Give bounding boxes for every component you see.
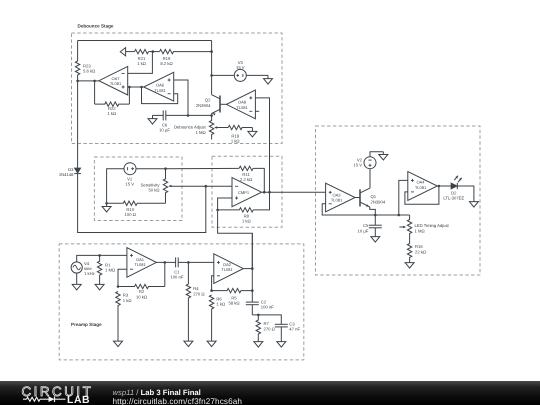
ground at R3: [117, 340, 119, 342]
wire OA6 non-inverting input down to C6 node: [174, 80, 188, 116]
op-amp OA2: [214, 254, 244, 284]
wire R2 right up to OA1 output: [164, 262, 166, 286]
ground at LED: [473, 201, 475, 203]
wire V2 top to ground: [370, 152, 383, 157]
junction OA4 output: [438, 185, 441, 188]
svg-text:10 µF: 10 µF: [358, 228, 369, 233]
ground at R16: [409, 262, 411, 264]
ground at V4: [76, 283, 78, 285]
svg-text:1 MΩ: 1 MΩ: [196, 130, 206, 135]
svg-text:58 kΩ: 58 kΩ: [228, 301, 239, 306]
junction emitter rail / OA4 non-inverting feed: [398, 214, 401, 217]
capacitor C5: [358, 215, 382, 237]
ground at V2: [382, 152, 384, 155]
op-amp OA4: [408, 172, 438, 201]
junction V1 negative / R10 / ground: [105, 202, 108, 205]
wire sensitivity wiper to comparator inverting input: [172, 185, 233, 187]
wire OA4 output to LED: [437, 185, 451, 187]
wire OA1 inverting input to feedback node: [118, 269, 127, 286]
svg-text:TL081: TL081: [134, 262, 146, 267]
svg-text:1 kΩ: 1 kΩ: [123, 298, 132, 303]
wire OA6 output to OA7 non-inverting input: [128, 86, 144, 88]
CircuitLab logo squiggle (wire resistor diode): [23, 396, 66, 402]
junction C1/R4/OA2+ node: [187, 261, 190, 264]
wire OA6 feedback loop output to inverting input: [142, 87, 178, 104]
capacitor C1: [170, 257, 188, 279]
debounce stage boundary box: [72, 33, 283, 144]
svg-text:5.6 kΩ: 5.6 kΩ: [83, 69, 95, 74]
ground at V1/R10: [106, 203, 108, 206]
svg-text:100 nF: 100 nF: [261, 305, 274, 310]
junction OA2 output: [251, 267, 254, 270]
sensitivity stage boundary box: [94, 157, 182, 221]
svg-text:1 kΩ: 1 kΩ: [137, 61, 146, 66]
diode D3 1N4148: [59, 81, 81, 177]
resistor R4: [186, 262, 204, 341]
junction R22 left at OA7 output: [93, 80, 96, 83]
capacitor C3: [275, 322, 301, 342]
wire R22 left leg from OA7 output: [94, 81, 96, 104]
node A junction (R23 / OA7 output / D3): [76, 80, 79, 83]
junction R5/R6/OA2- node: [210, 289, 213, 292]
junction R19 to supply rail: [210, 50, 213, 53]
wire port to R21: [126, 51, 135, 53]
svg-text:1N4148: 1N4148: [59, 172, 74, 177]
resistor R16: [407, 244, 426, 263]
op-amp OA3: [326, 183, 356, 212]
svg-text:LAB: LAB: [67, 395, 90, 405]
svg-text:1 kΩ: 1 kΩ: [242, 219, 251, 224]
ground at R7: [257, 341, 259, 343]
wire V4 bottom to ground: [76, 273, 78, 284]
op-amp OA8: [226, 90, 255, 119]
wire V1 negative lead to ground rail: [107, 169, 124, 204]
ground at C3: [280, 341, 282, 343]
ground at R6: [211, 340, 213, 342]
wire comparator input node down to preamp output: [218, 210, 253, 269]
junction R5 right / C2 top: [251, 289, 254, 292]
wire LED cathode to ground: [457, 186, 474, 202]
LED D2 LTL-307EE: [443, 175, 464, 200]
voltage source V1 15 V: [124, 163, 136, 187]
op-amp OA6: [144, 72, 174, 101]
resistor R23: [75, 41, 95, 81]
wire OA8 inverting input stub: [255, 110, 259, 112]
op-amp OA1: [127, 248, 156, 278]
junction emitter rail / C5: [374, 214, 377, 217]
svg-text:wsp11 / Lab 3 Final Final: wsp11 / Lab 3 Final Final: [113, 388, 201, 397]
wire OA2 inverting input to feedback node: [212, 276, 214, 291]
resistor R18: [228, 125, 252, 143]
wire OA4 feedback loop output to inverting input: [405, 186, 439, 204]
wire OA7 inverting input to R21/R19 junction: [128, 52, 153, 74]
ground at V3: [267, 75, 269, 78]
svg-text:10 kΩ: 10 kΩ: [136, 294, 147, 299]
svg-text:1 kΩ: 1 kΩ: [107, 111, 116, 116]
resistor R7: [256, 315, 275, 342]
svg-text:100 nF: 100 nF: [170, 275, 183, 280]
wire D3 down and across to sensitivity wiper node: [78, 174, 206, 233]
svg-text:TL081: TL081: [331, 198, 343, 203]
wire OA1 output to C1: [156, 261, 175, 263]
ground at R4: [187, 340, 189, 342]
junction R2/R3/OA1- node: [117, 285, 120, 288]
svg-text:Preamp Stage: Preamp Stage: [71, 322, 102, 327]
resistor R19: [160, 49, 212, 66]
voltage source V2 15 V: [353, 157, 376, 169]
wire OA3 output to Q1 base: [355, 197, 360, 199]
resistor R3: [116, 292, 132, 342]
wire V1 positive lead to pot top: [136, 168, 166, 170]
svg-text:15 V: 15 V: [236, 65, 245, 70]
ground at R18: [251, 130, 253, 132]
svg-text:47 nF: 47 nF: [289, 327, 300, 332]
svg-text:TL081: TL081: [110, 81, 122, 86]
resistor R10: [107, 201, 166, 217]
LED driver stage boundary box: [316, 126, 481, 275]
wire top supply rail: [78, 40, 212, 42]
wire V4 top to OA1 non-inverting input: [77, 255, 127, 262]
junction wiper / D3 branch: [205, 185, 208, 188]
wire node A to OA7 output: [78, 80, 99, 82]
wire C1 node to OA2 non-inverting input: [188, 261, 213, 263]
svg-text:1 MΩ: 1 MΩ: [105, 268, 115, 273]
junction R1 top: [98, 254, 101, 257]
wire V3 right lead to ground: [246, 74, 268, 76]
junction R2 at OA1 output: [164, 261, 167, 264]
wire OA3 inverting input feedback to emitter rail: [322, 204, 409, 215]
wire C2 bottom across to C3: [252, 315, 281, 324]
wire R18 to ground: [251, 128, 253, 132]
junction R7 top: [257, 314, 260, 317]
svg-text:1 kΩ: 1 kΩ: [216, 302, 225, 307]
resistor R2: [118, 284, 165, 299]
wire OA4 non-inverting input from emitter rail: [399, 180, 408, 215]
svg-text:270 Ω: 270 Ω: [264, 326, 275, 331]
wire R8 right up to output node: [253, 192, 269, 210]
resistor R8: [218, 208, 254, 224]
svg-text:1 kΩ: 1 kΩ: [231, 139, 240, 144]
preamp stage boundary box: [59, 244, 304, 360]
resistor R6: [209, 295, 225, 341]
capacitor C6: [153, 110, 189, 132]
resistor R22: [95, 102, 130, 116]
svg-text:TL081: TL081: [415, 185, 427, 190]
svg-text:LTL-307EE: LTL-307EE: [443, 195, 464, 200]
wire CMP1 output to OA3 input: [262, 191, 326, 193]
svg-text:50 kΩ: 50 kΩ: [148, 188, 159, 193]
input port arrow: [120, 48, 125, 56]
junction R21/R19/OA7 inverting input: [152, 50, 155, 53]
wire OA8 non-inverting input down to comparator output node: [255, 98, 269, 192]
junction R8 left / preamp feed: [216, 209, 219, 212]
op-amp OA7: [99, 66, 128, 95]
junction R22/OA7+/OA6 output: [128, 86, 131, 89]
capacitor C2: [246, 299, 274, 315]
svg-text:1 kHz: 1 kHz: [84, 271, 95, 276]
junction V3 to supply rail: [210, 74, 213, 77]
svg-text:TL081: TL081: [236, 105, 248, 110]
svg-text:8.2 kΩ: 8.2 kΩ: [160, 61, 172, 66]
svg-text:TL081: TL081: [154, 88, 166, 93]
svg-text:100 Ω: 100 Ω: [125, 212, 136, 217]
voltage source V3 15 V: [234, 60, 246, 82]
potentiometer Debounce Adjust 1 MOhm: [174, 115, 228, 139]
junction OA8 sense / R8 feedback at output: [268, 191, 271, 194]
wire R22 right leg up to OA7 non-inverting input: [128, 87, 130, 104]
wire pot top node to R11 (supply to comparator pull-up): [166, 167, 240, 169]
svg-text:15 V: 15 V: [353, 162, 362, 167]
svg-text:22 kΩ: 22 kΩ: [415, 249, 426, 254]
voltage source V4 sine 1 kHz: [71, 261, 95, 276]
junction R11 at output: [263, 191, 266, 194]
svg-text:15 V: 15 V: [125, 182, 134, 187]
svg-text:Debounce Stage: Debounce Stage: [78, 23, 114, 28]
svg-text:2N3904: 2N3904: [371, 199, 386, 204]
resistor R21: [135, 49, 149, 66]
wire OA2 output vertical net: [243, 268, 252, 270]
resistor R11 pull-up: [239, 166, 253, 182]
wire V2 bottom to Q1 collector: [369, 169, 371, 188]
ground at C5: [374, 236, 376, 238]
wire CMP1 non-inverting input to R8 node: [218, 198, 232, 210]
svg-text:1 MΩ: 1 MΩ: [415, 228, 425, 233]
resistor R1: [97, 255, 115, 284]
junction OA6 feedback at output wire: [140, 86, 143, 89]
junction V1/pot/R11 node: [164, 167, 167, 170]
svg-text:TL081: TL081: [221, 267, 233, 272]
svg-text:http://circuitlab.com/cf3fn27h: http://circuitlab.com/cf3fn27hcs6ah: [113, 397, 243, 405]
svg-text:270 Ω: 270 Ω: [193, 291, 204, 296]
comparator CMP1: [232, 178, 262, 207]
wire C6 node to Q2 emitter node: [188, 114, 212, 116]
ground at R1: [99, 283, 101, 285]
wire V3 left lead: [212, 74, 235, 76]
svg-text:2N3904: 2N3904: [196, 103, 211, 108]
resistor R5: [212, 288, 253, 305]
wire supply rail drop to V3 and Q2 collector: [211, 41, 213, 95]
potentiometer Sensitivity 50 kOhm: [141, 169, 172, 204]
svg-text:10 µF: 10 µF: [159, 128, 170, 133]
wire R11 to comparator output: [253, 168, 264, 192]
transistor Q1 2N3904: [360, 188, 386, 215]
junction C6/OA6+ node: [187, 114, 190, 117]
transistor Q2 2N3904: [196, 95, 227, 116]
svg-text:2.2 kΩ: 2.2 kΩ: [240, 177, 252, 182]
svg-text:CMP1: CMP1: [238, 190, 250, 195]
comparator stage boundary box: [212, 156, 282, 227]
ground at C6: [152, 115, 154, 118]
potentiometer LED Timing Adjust 1 MOhm: [399, 215, 449, 244]
junction Q2 emitter / C6 / debounce pot: [210, 114, 213, 117]
